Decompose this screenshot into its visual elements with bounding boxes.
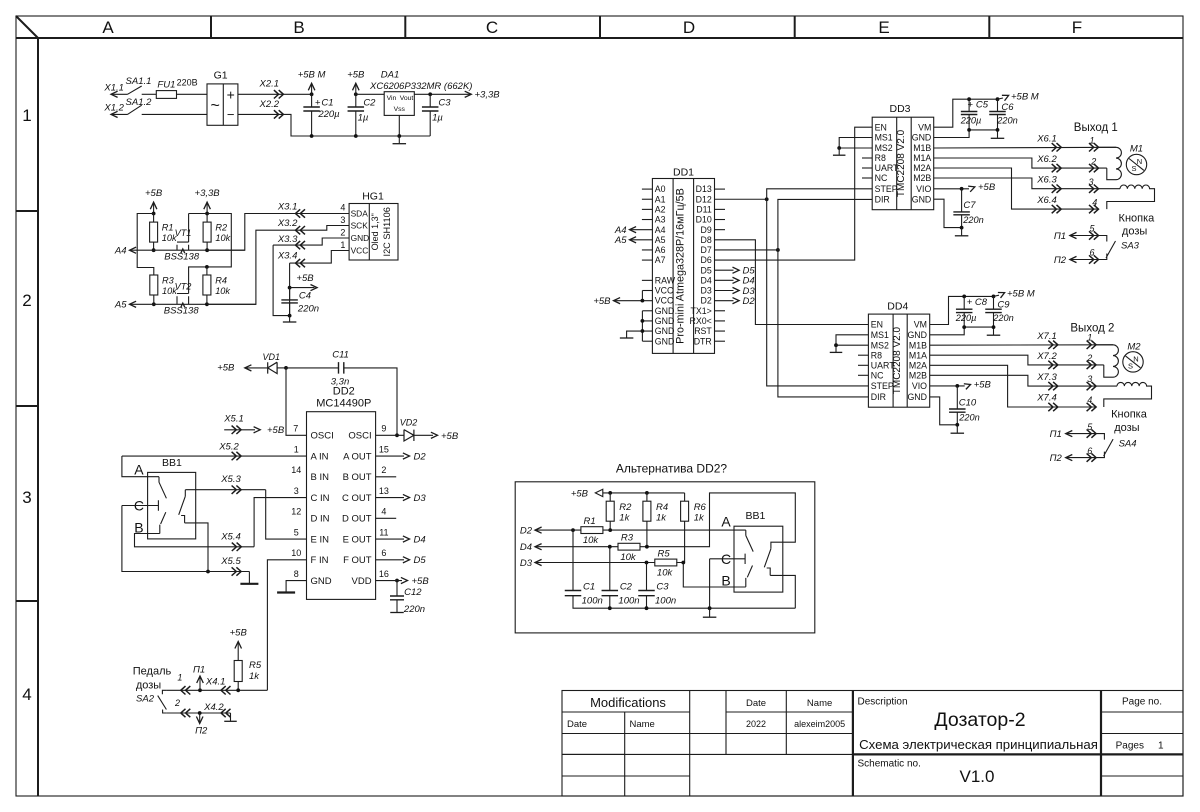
- svg-text:П2: П2: [1054, 255, 1067, 266]
- svg-text:B: B: [721, 573, 730, 589]
- ground C6: [997, 137, 999, 139]
- ground GND pin 8: [286, 581, 306, 593]
- svg-text:Name: Name: [807, 698, 832, 709]
- svg-text:10k: 10k: [620, 552, 637, 563]
- svg-text:DD4: DD4: [887, 301, 908, 313]
- svg-text:X5.1: X5.1: [223, 414, 244, 425]
- capacitor C10 220n: [956, 386, 958, 409]
- svg-text:F IN: F IN: [311, 555, 329, 566]
- svg-text:MS1: MS1: [875, 133, 893, 143]
- svg-text:1: 1: [1158, 741, 1164, 752]
- svg-text:A OUT: A OUT: [343, 451, 372, 462]
- svg-text:R2: R2: [215, 222, 227, 232]
- svg-text:A2: A2: [655, 204, 666, 214]
- svg-text:П2: П2: [1050, 453, 1063, 464]
- svg-text:Modifications: Modifications: [590, 695, 666, 710]
- svg-text:10k: 10k: [215, 233, 230, 243]
- capacitor C9 220n: [993, 296, 995, 309]
- svg-text:R4: R4: [656, 502, 668, 513]
- svg-text:GND: GND: [351, 233, 370, 243]
- wire C line: [122, 505, 158, 507]
- wire GND pin to C5 bottom rail: [934, 130, 998, 138]
- svg-text:C12: C12: [404, 587, 422, 598]
- resistor R5 10k: [655, 559, 677, 566]
- node C2 top: [608, 545, 612, 549]
- svg-text:100n: 100n: [618, 596, 639, 607]
- node C5 top: [967, 97, 971, 101]
- svg-text:VM: VM: [914, 320, 927, 330]
- net +5B M arrow: [998, 98, 1004, 99]
- wire VIO +5B: [930, 385, 965, 387]
- svg-text:X6.4: X6.4: [1036, 195, 1057, 206]
- svg-text:D2: D2: [520, 526, 533, 537]
- stub D OUT: [376, 517, 397, 519]
- svg-text:V1.0: V1.0: [960, 767, 995, 786]
- svg-text:D6: D6: [701, 255, 712, 265]
- svg-text:A0: A0: [655, 184, 666, 194]
- node C3 top: [645, 561, 649, 565]
- svg-text:−: −: [227, 107, 235, 122]
- capacitor C3 1µ: [429, 94, 431, 107]
- svg-text:+5B: +5B: [296, 273, 314, 284]
- svg-text:A: A: [102, 18, 114, 37]
- ground: [390, 612, 404, 614]
- wire X2.1: [238, 93, 312, 95]
- svg-text:Педаль: Педаль: [133, 666, 172, 678]
- svg-text:Альтернатива DD2?: Альтернатива DD2?: [616, 461, 728, 475]
- svg-text:MS2: MS2: [871, 340, 889, 350]
- switch SA3 hooks and blade: [1099, 236, 1116, 260]
- svg-text:RST: RST: [694, 326, 712, 336]
- svg-text:220n: 220n: [297, 303, 319, 314]
- svg-text:VIO: VIO: [916, 184, 931, 194]
- svg-text:DD1: DD1: [673, 167, 694, 179]
- motor M2 winding A: [1096, 344, 1113, 346]
- svg-text:X2.1: X2.1: [259, 79, 280, 90]
- svg-text:A5: A5: [114, 300, 127, 311]
- wire D12 line: [715, 198, 767, 200]
- connector chevron X5.4: [232, 543, 242, 551]
- resistor R3 10k: [618, 543, 640, 550]
- svg-text:E OUT: E OUT: [343, 534, 372, 545]
- svg-text:DA1: DA1: [381, 70, 399, 81]
- wire D2 to A: [603, 529, 746, 531]
- svg-text:Pages: Pages: [1116, 741, 1144, 752]
- svg-text:Date: Date: [746, 698, 766, 709]
- svg-text:DD3: DD3: [889, 103, 910, 115]
- svg-text:X6.2: X6.2: [1036, 154, 1057, 165]
- wire D2 arrow: [715, 300, 734, 302]
- motor M1 winding B: [1107, 185, 1155, 209]
- svg-text:1µ: 1µ: [432, 113, 443, 124]
- svg-text:D OUT: D OUT: [342, 514, 372, 525]
- capacitor C5 220µ: [968, 99, 970, 111]
- svg-text:A5: A5: [614, 235, 627, 246]
- svg-text:10k: 10k: [583, 535, 600, 546]
- stubs R8 UART NC: [858, 354, 868, 356]
- svg-text:10: 10: [291, 548, 301, 558]
- svg-text:D2: D2: [414, 452, 427, 463]
- svg-text:SA2: SA2: [136, 694, 155, 705]
- svg-text:1µ: 1µ: [358, 113, 369, 124]
- wire GND pin to C8 bottom rail: [930, 327, 994, 335]
- svg-text:D3: D3: [520, 558, 533, 569]
- capacitor C11 3,3n: [286, 367, 339, 369]
- svg-text:SA3: SA3: [1121, 241, 1140, 252]
- power +5B arrow right: [290, 287, 315, 289]
- svg-text:D9: D9: [701, 225, 712, 235]
- svg-text:6: 6: [1087, 446, 1092, 456]
- wire D7 line: [715, 249, 778, 251]
- svg-text:C8: C8: [975, 297, 988, 308]
- svg-text:Дозатор-2: Дозатор-2: [934, 709, 1025, 731]
- svg-text:EN: EN: [875, 122, 887, 132]
- svg-text:SDA: SDA: [351, 209, 369, 219]
- svg-text:A: A: [721, 514, 731, 530]
- svg-text:X7.3: X7.3: [1036, 372, 1057, 383]
- svg-text:BB1: BB1: [745, 510, 765, 522]
- svg-text:+5B: +5B: [441, 431, 459, 442]
- wire drain to X3.2: [207, 230, 301, 304]
- svg-text:E IN: E IN: [311, 534, 330, 545]
- svg-text:X5.5: X5.5: [220, 556, 241, 567]
- node C8 top: [962, 295, 966, 299]
- wire A4 line: [130, 249, 245, 251]
- ground MS: [835, 345, 837, 352]
- svg-text:D13: D13: [696, 184, 712, 194]
- node +3,3B: [205, 212, 209, 216]
- net +5B M arrow: [994, 295, 1000, 296]
- svg-text:220n: 220n: [958, 412, 979, 422]
- svg-text:OSCI: OSCI: [311, 431, 334, 442]
- svg-text:Page no.: Page no.: [1122, 697, 1162, 708]
- svg-text:П1: П1: [1050, 429, 1062, 440]
- wire A5 line: [130, 303, 256, 305]
- svg-text:X4.2: X4.2: [203, 702, 224, 713]
- svg-text:UART: UART: [875, 163, 899, 173]
- svg-text:~: ~: [211, 98, 220, 115]
- node C1 top: [571, 528, 575, 532]
- svg-text:SCK: SCK: [351, 220, 369, 230]
- svg-text:D5: D5: [414, 555, 427, 566]
- node C10 gnd: [955, 423, 959, 427]
- svg-text:HG1: HG1: [362, 191, 384, 203]
- wire F OUT to D5: [376, 559, 404, 561]
- node R4 top: [645, 491, 649, 495]
- svg-text:A3: A3: [655, 215, 666, 225]
- svg-text:FU1: FU1: [157, 79, 175, 90]
- capacitor C3 100n: [646, 563, 648, 591]
- node VD1/C11: [284, 366, 288, 370]
- svg-text:VT2: VT2: [175, 282, 192, 292]
- svg-text:дозы: дозы: [1122, 226, 1147, 238]
- svg-text:1k: 1k: [694, 512, 705, 523]
- svg-text:R8: R8: [871, 350, 882, 360]
- connector chevron X2.1: [274, 90, 284, 98]
- svg-text:GND: GND: [311, 576, 332, 587]
- svg-text:M1: M1: [1130, 144, 1143, 155]
- svg-text:VCC: VCC: [655, 286, 674, 296]
- svg-text:1k: 1k: [656, 512, 667, 523]
- svg-text:100n: 100n: [655, 596, 676, 607]
- ground: [289, 316, 291, 322]
- wire Vss: [398, 115, 400, 136]
- wire X5.4 to C IN pin 3: [254, 498, 306, 547]
- svg-text:S: S: [1128, 361, 1133, 370]
- svg-text:S: S: [1131, 164, 1136, 173]
- wire X2.2: [238, 114, 430, 136]
- connector chevron X3.3: [296, 241, 306, 249]
- ground X4.2: [230, 713, 232, 721]
- stubs D13 D11 D10 D9: [715, 188, 726, 190]
- svg-text:220n: 220n: [962, 215, 983, 225]
- svg-text:STEP: STEP: [871, 381, 894, 391]
- svg-text:VD1: VD1: [263, 352, 281, 362]
- svg-text:6: 6: [381, 548, 386, 558]
- node R2 drain: [205, 248, 209, 252]
- svg-text:M2B: M2B: [913, 173, 931, 183]
- svg-text:C7: C7: [963, 200, 976, 211]
- svg-text:X3.3: X3.3: [277, 234, 298, 245]
- svg-text:C: C: [486, 18, 498, 37]
- svg-text:X5.2: X5.2: [218, 441, 239, 452]
- svg-text:C4: C4: [299, 290, 311, 301]
- svg-text:A1: A1: [655, 194, 666, 204]
- wire X3.4 down to C4: [289, 263, 291, 316]
- node C4 gnd: [288, 314, 292, 318]
- wire to OSCI pin 7: [286, 368, 307, 435]
- wire B contact: [745, 586, 747, 588]
- svg-text:1k: 1k: [249, 671, 260, 682]
- node VIO: [960, 187, 964, 191]
- svg-text:STEP: STEP: [875, 184, 898, 194]
- svg-text:14: 14: [291, 465, 301, 475]
- node R2 top: [608, 491, 612, 495]
- wire C line alt: [710, 558, 746, 560]
- power +5B: [355, 84, 357, 95]
- svg-text:X4.1: X4.1: [205, 677, 226, 688]
- VCC pins +5B: [642, 290, 652, 292]
- wire X5.3 to E IN pin 5: [266, 490, 307, 539]
- wire X5.2 corner to A contact: [122, 456, 159, 477]
- svg-text:1: 1: [22, 106, 31, 125]
- svg-text:Схема электрическая принципиал: Схема электрическая принципиальная: [859, 737, 1098, 752]
- capacitor C1 100n: [572, 530, 574, 590]
- svg-text:7: 7: [293, 424, 298, 434]
- svg-text:Выход 1: Выход 1: [1074, 122, 1118, 134]
- svg-text:D4: D4: [520, 542, 532, 553]
- wire +3,3B rail: [189, 214, 232, 294]
- svg-text:NC: NC: [871, 371, 884, 381]
- svg-text:DIR: DIR: [875, 194, 890, 204]
- connector chevron X5.5: [232, 567, 242, 575]
- node C7 gnd: [960, 226, 964, 230]
- svg-text:Schematic no.: Schematic no.: [858, 759, 921, 770]
- wire B line to X5.4: [135, 534, 255, 547]
- svg-text:D4: D4: [414, 535, 426, 546]
- resistor R3 10k: [150, 275, 158, 295]
- svg-text:Name: Name: [630, 719, 655, 730]
- capacitor C2 1µ: [355, 94, 357, 107]
- svg-text:4: 4: [340, 203, 345, 213]
- resistor R1 10k: [153, 214, 155, 223]
- svg-text:220n: 220n: [992, 313, 1013, 323]
- svg-text:10k: 10k: [657, 568, 674, 579]
- svg-text:дозы: дозы: [136, 680, 161, 692]
- svg-text:VCC: VCC: [655, 296, 674, 306]
- net П2 down arrow: [198, 711, 202, 715]
- svg-text:OSCI: OSCI: [348, 431, 371, 442]
- connector chevron X3.2: [296, 226, 306, 234]
- node R4 bottom: [645, 545, 649, 549]
- svg-text:5: 5: [294, 527, 299, 537]
- node R6 bottom: [681, 561, 685, 565]
- wire D6 to DD3 EN: [715, 127, 873, 260]
- svg-text:DTR: DTR: [694, 336, 712, 346]
- ground: [398, 136, 400, 143]
- wire VM to +5BM rail: [934, 99, 998, 127]
- svg-text:11: 11: [379, 527, 388, 537]
- wire pedal to F IN pin 10: [267, 560, 306, 691]
- svg-text:220µ: 220µ: [960, 115, 982, 125]
- DD1 plain left pin stubs: [642, 188, 653, 190]
- resistor R6 1k: [684, 493, 686, 501]
- svg-text:3: 3: [294, 486, 299, 496]
- resistor R1 10k: [581, 527, 603, 534]
- switch BB1 alt pole 2: [764, 549, 771, 576]
- node OSCI out: [395, 433, 399, 437]
- wire: [356, 93, 384, 95]
- svg-text:VIO: VIO: [912, 381, 927, 391]
- wire X3.4 to VCC pin 1: [290, 251, 350, 264]
- alternative circuit box: [515, 482, 815, 633]
- stubs R8 UART NC: [862, 157, 872, 159]
- svg-text:M1B: M1B: [913, 143, 931, 153]
- wire MS1 MS2 to ground: [839, 138, 872, 149]
- svg-text:Vss: Vss: [394, 106, 406, 113]
- resistor R4 10k: [206, 267, 208, 275]
- svg-text:16: 16: [379, 569, 389, 579]
- capacitor C6 220n: [997, 99, 999, 111]
- svg-text:R2: R2: [619, 502, 632, 513]
- wire D4 to switch2 loop: [640, 493, 796, 549]
- svg-text:XC6206P332MR (662K): XC6206P332MR (662K): [369, 81, 472, 92]
- svg-text:C1: C1: [583, 581, 595, 592]
- svg-text:Vout: Vout: [400, 95, 414, 102]
- svg-text:X6.3: X6.3: [1036, 174, 1057, 185]
- svg-text:2022: 2022: [746, 719, 766, 729]
- switch BB1 alt pole 1: [745, 530, 753, 587]
- svg-text:N: N: [1133, 355, 1138, 364]
- node D12: [765, 197, 769, 201]
- svg-text:GND: GND: [655, 336, 675, 346]
- node C3 bottom: [645, 606, 649, 610]
- svg-text:GND: GND: [655, 326, 675, 336]
- svg-text:+: +: [968, 100, 974, 111]
- node +5B: [354, 92, 358, 96]
- svg-text:Кнопка: Кнопка: [1119, 213, 1156, 225]
- svg-text:+5B: +5B: [230, 628, 248, 639]
- wire D4 line: [535, 546, 618, 548]
- svg-text:C11: C11: [332, 350, 349, 361]
- svg-text:D4: D4: [701, 275, 712, 285]
- svg-text:1k: 1k: [619, 512, 630, 523]
- svg-text:C9: C9: [997, 299, 1010, 310]
- svg-text:220n: 220n: [403, 604, 425, 615]
- svg-text:R5: R5: [658, 548, 671, 559]
- svg-text:2: 2: [174, 698, 180, 708]
- svg-text:Description: Description: [858, 697, 908, 708]
- svg-text:M2B: M2B: [909, 371, 927, 381]
- svg-text:C3: C3: [438, 97, 451, 108]
- net +3,3B output arrow: [465, 91, 472, 97]
- stubs TX RX RST DTR: [715, 310, 726, 312]
- svg-text:D3: D3: [701, 286, 712, 296]
- svg-text:GND: GND: [907, 330, 927, 340]
- svg-text:Vin: Vin: [387, 95, 397, 102]
- power +5B: [237, 641, 239, 643]
- svg-text:X3.1: X3.1: [277, 201, 298, 212]
- node +5B M: [310, 92, 314, 96]
- wire switch2 bottom to gnd rail: [770, 575, 795, 608]
- svg-text:VM: VM: [918, 122, 931, 132]
- wire VDD +5B arrow: [376, 580, 402, 582]
- wire Vout: [414, 93, 471, 95]
- svg-text:F OUT: F OUT: [343, 555, 372, 566]
- ground C7: [961, 228, 963, 236]
- svg-text:NC: NC: [875, 173, 888, 183]
- svg-text:R3: R3: [162, 275, 175, 285]
- power +5B M: [311, 84, 313, 95]
- ground C10: [956, 425, 958, 433]
- svg-text:X1.1: X1.1: [103, 83, 124, 94]
- motor M2 winding B: [1104, 382, 1152, 407]
- svg-text:12: 12: [291, 507, 301, 517]
- svg-text:C5: C5: [976, 100, 989, 111]
- svg-text:220B: 220B: [177, 77, 198, 87]
- svg-text:10k: 10k: [215, 286, 230, 296]
- svg-text:F: F: [1072, 18, 1082, 37]
- svg-text:П1: П1: [193, 664, 205, 675]
- svg-text:X1.2: X1.2: [103, 102, 124, 113]
- svg-text:R5: R5: [249, 660, 262, 671]
- svg-text:D12: D12: [696, 194, 712, 204]
- svg-text:M1A: M1A: [909, 350, 927, 360]
- capacitor C1 220µ: [311, 94, 313, 107]
- node ground rail: [708, 606, 712, 610]
- svg-text:C1: C1: [321, 97, 333, 108]
- node R2 bottom: [608, 528, 612, 532]
- node X5.5: [206, 570, 210, 574]
- connector chevron X2.2: [274, 110, 284, 118]
- title block: [562, 691, 1183, 797]
- svg-text:C IN: C IN: [311, 493, 330, 504]
- svg-text:100n: 100n: [582, 596, 603, 607]
- svg-text:X2.2: X2.2: [259, 99, 280, 110]
- svg-text:X6.1: X6.1: [1036, 133, 1057, 144]
- svg-text:1: 1: [177, 672, 182, 682]
- svg-text:R4: R4: [215, 275, 227, 285]
- power +3,3B: [206, 203, 208, 214]
- svg-text:D: D: [683, 18, 695, 37]
- ground alt box: [709, 608, 711, 617]
- svg-text:RAW: RAW: [655, 275, 676, 285]
- svg-text:M2A: M2A: [913, 163, 931, 173]
- svg-text:M2A: M2A: [909, 361, 927, 371]
- svg-text:A4: A4: [655, 225, 666, 235]
- svg-text:1: 1: [294, 444, 299, 454]
- wire X3.3 to GND pin 2: [273, 238, 349, 245]
